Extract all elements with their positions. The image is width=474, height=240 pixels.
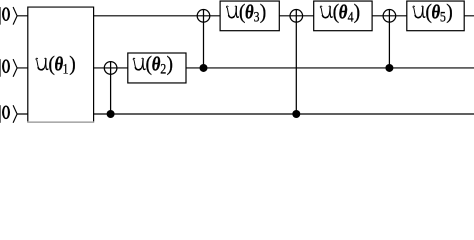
gate label U(theta_5) : bold theta (432, 1, 441, 24)
CNOT target oplus 3 (290, 10, 303, 23)
node ket |0> qubit 2 : zero counter (4, 61, 8, 72)
CNOT control dot 2 (200, 64, 208, 72)
svg-text:): ) (446, 1, 453, 24)
svg-text:θ: θ (339, 1, 348, 24)
op-box U1 gate box (3-qubit unitary) (28, 7, 94, 121)
CNOT target oplus 4 (383, 10, 396, 23)
CNOT control dot 4 (385, 64, 393, 72)
gate label U(theta_1) : open paren (48, 53, 55, 76)
wire: vertical line CNOT4 (ctrl q2, targ q1) (388, 10, 390, 68)
node ket |0> qubit 2 : bar (0, 59, 2, 77)
svg-text:1: 1 (63, 61, 69, 77)
gate label U(theta_5) : subscript 5 (440, 8, 446, 24)
gate label U(theta_1) : close paren (69, 53, 76, 76)
op-box U2 gate box (128, 53, 186, 83)
node ket |0> qubit 1 : angle bracket (13, 7, 17, 25)
gate label U(theta_3) : mathcal U (226, 6, 238, 18)
gate label U(theta_2) : close paren (167, 53, 174, 76)
op-box U4 gate box (314, 1, 372, 31)
node ket |0> qubit 1 : bar (0, 7, 2, 25)
svg-text:θ: θ (245, 1, 254, 24)
gate label U(theta_4) : mathcal U (320, 6, 332, 18)
gate label U(theta_5) : close paren (446, 1, 453, 24)
gate label U(theta_1) : bold theta (55, 53, 64, 76)
svg-text:2: 2 (160, 61, 166, 77)
gate label U(theta_2) : subscript 2 (160, 61, 166, 77)
gate label U(theta_2) : mathcal U (133, 58, 145, 70)
svg-text:): ) (69, 53, 76, 76)
wire: vertical line CNOT1 (ctrl q3, targ q2) (110, 62, 112, 114)
node ket |0> qubit 1 : zero counter (4, 9, 8, 20)
svg-text:3: 3 (254, 8, 260, 24)
gate label U(theta_4) : bold theta (339, 1, 348, 24)
gate label U(theta_5) : mathcal U (413, 6, 425, 18)
gate label U(theta_2) : bold theta (152, 53, 161, 76)
op-box U5 gate box (407, 1, 464, 31)
wire: vertical line CNOT3 (ctrl q3, targ q1) (295, 10, 297, 114)
gate label U(theta_4) : close paren (354, 1, 361, 24)
wire: vertical line CNOT2 (ctrl q2, targ q1) (203, 10, 205, 68)
node ket |0> qubit 3 : zero counter (4, 107, 8, 118)
op-box U3 gate box (220, 1, 279, 31)
gate label U(theta_3) : subscript 3 (254, 8, 260, 24)
svg-text:): ) (167, 53, 174, 76)
node ket |0> qubit 2 : angle bracket (13, 59, 17, 77)
node ket |0> qubit 3 : bar (0, 105, 2, 123)
svg-text:): ) (260, 1, 267, 24)
gate label U(theta_5) : open paren (425, 1, 432, 24)
wire q2 (17, 67, 474, 69)
node ket |0> qubit 3 : angle bracket (13, 105, 17, 123)
node ket |0> qubit 2 : zero outer (2, 59, 10, 73)
svg-text:5: 5 (440, 8, 446, 24)
CNOT control dot 3 (292, 110, 300, 118)
gate label U(theta_2) : open paren (146, 53, 153, 76)
svg-text:θ: θ (152, 53, 161, 76)
CNOT control dot 1 (107, 110, 115, 118)
gate label U(theta_4) : subscript 4 (348, 8, 354, 24)
gate label U(theta_1) : mathcal U (36, 58, 48, 70)
node ket |0> qubit 1 : zero outer (2, 7, 10, 21)
wire q3 (17, 113, 474, 115)
CNOT target oplus 1 (104, 62, 117, 75)
wire q1 (17, 15, 474, 17)
gate label U(theta_1) : subscript 1 (63, 61, 69, 77)
node ket |0> qubit 3 : zero outer (2, 105, 10, 119)
gate label U(theta_3) : bold theta (245, 1, 254, 24)
gate label U(theta_4) : open paren (333, 1, 340, 24)
gate label U(theta_3) : open paren (239, 1, 246, 24)
gate label U(theta_3) : close paren (260, 1, 267, 24)
CNOT target oplus 2 (197, 10, 210, 23)
svg-text:): ) (354, 1, 361, 24)
